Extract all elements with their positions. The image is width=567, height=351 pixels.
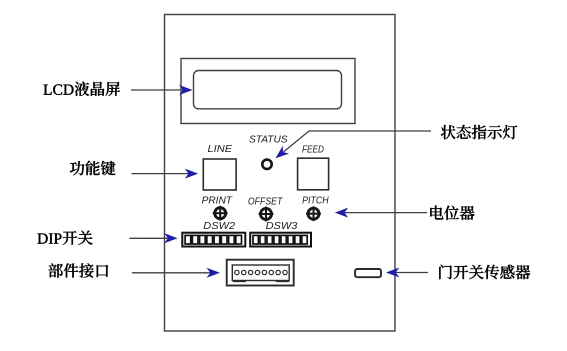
svg-text:DSW2: DSW2 xyxy=(203,220,235,232)
status LED xyxy=(262,160,271,169)
label 门开关传感器 xyxy=(439,265,530,279)
wire status callout xyxy=(280,131,432,155)
svg-text:OFFSET: OFFSET xyxy=(248,195,284,207)
label 电位器 xyxy=(430,206,474,220)
LINE button xyxy=(203,159,236,190)
PITCH potentiometer xyxy=(306,206,321,221)
wire door-sensor callout xyxy=(394,272,428,274)
door switch sensor xyxy=(355,269,381,277)
DIP switch DSW3 xyxy=(250,233,311,247)
label LCD液晶屏 xyxy=(44,82,121,97)
wire potentiometer callout xyxy=(343,212,427,214)
label DIP开关 xyxy=(38,231,93,245)
PRINT potentiometer xyxy=(213,206,228,221)
component connector J1 xyxy=(227,260,294,286)
svg-text:LINE: LINE xyxy=(208,143,234,155)
wire LCD callout xyxy=(131,89,184,91)
LCD bezel xyxy=(181,59,355,124)
LCD screen xyxy=(194,71,342,109)
label 功能键 xyxy=(70,161,116,176)
svg-text:DSW3: DSW3 xyxy=(266,220,298,232)
svg-text:PITCH: PITCH xyxy=(302,194,329,206)
label 部件接口 xyxy=(49,263,109,277)
FEED button xyxy=(298,158,329,190)
wire DIP callout xyxy=(130,237,170,239)
svg-text:STATUS: STATUS xyxy=(249,134,288,146)
svg-text:PRINT: PRINT xyxy=(202,195,234,207)
wire connector callout xyxy=(132,272,212,274)
OFFSET potentiometer xyxy=(259,207,274,222)
panel outline xyxy=(165,15,396,332)
label 状态指示灯 xyxy=(441,125,518,139)
DIP switch DSW2 xyxy=(182,233,245,247)
wire function-key callout xyxy=(132,173,191,175)
svg-text:FEED: FEED xyxy=(302,144,324,156)
